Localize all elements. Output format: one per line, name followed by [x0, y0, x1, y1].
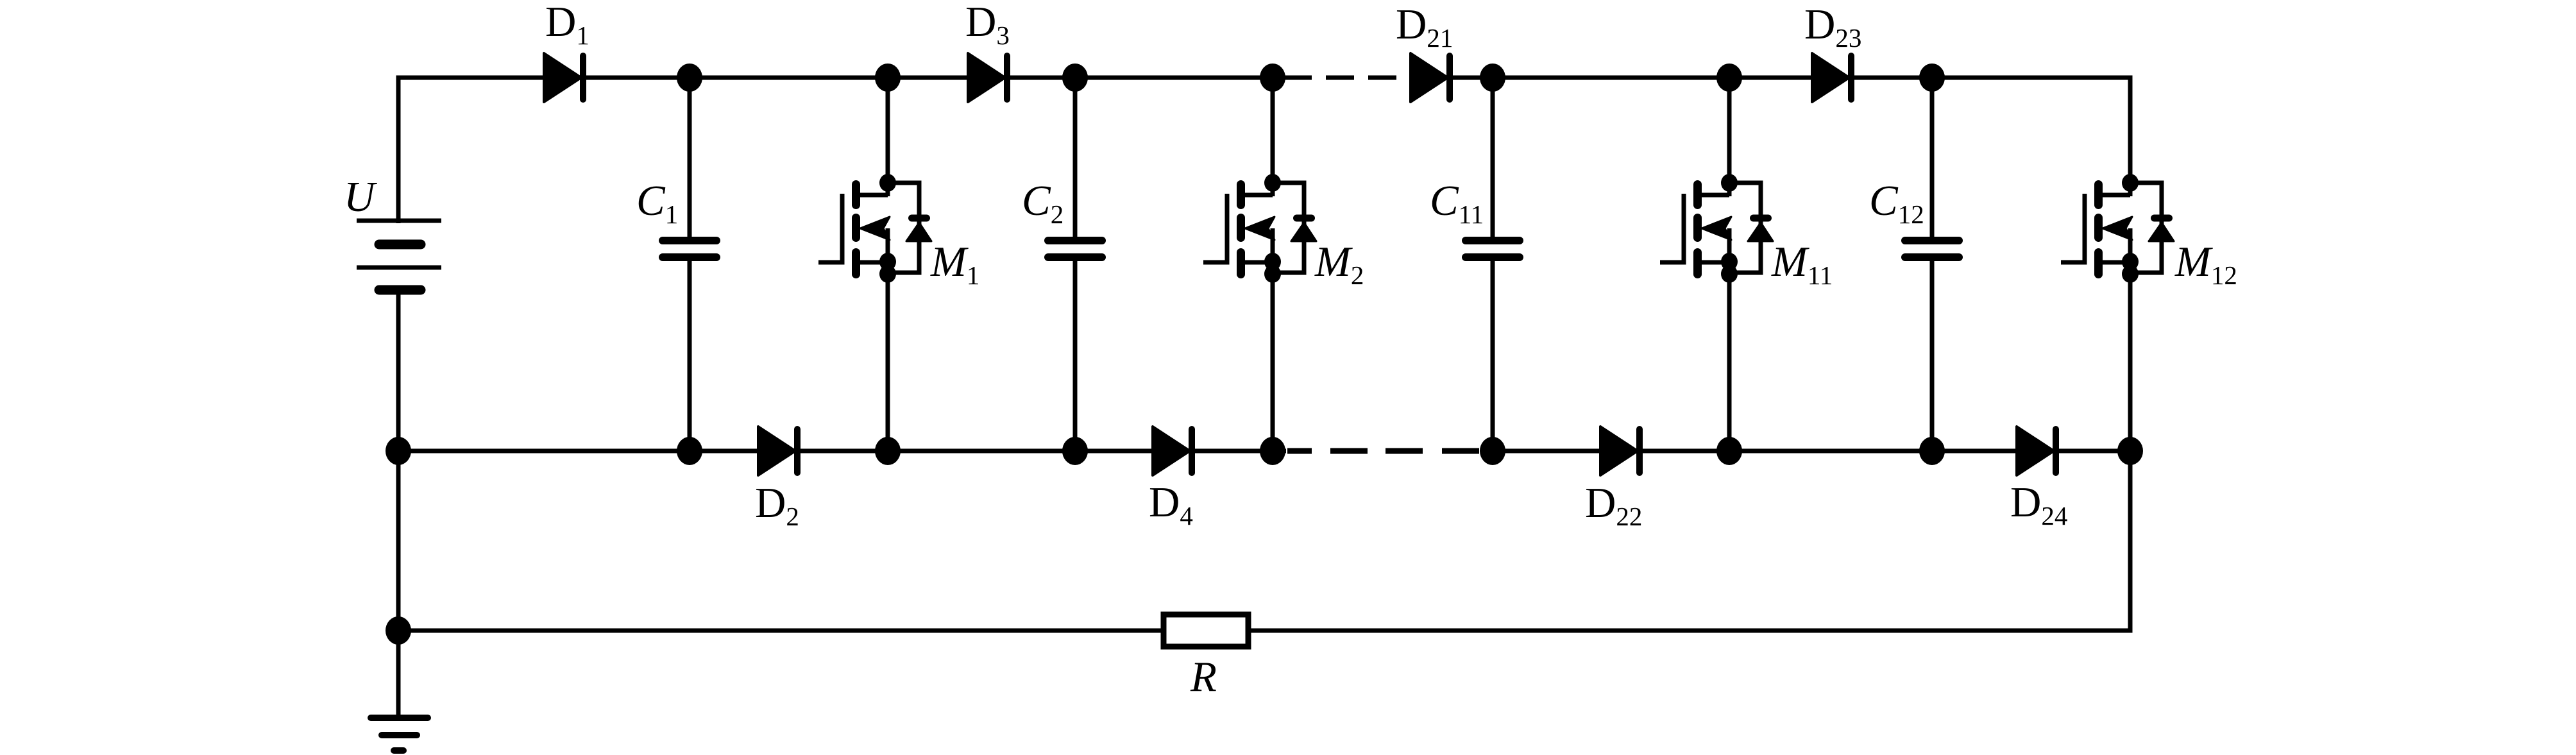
svg-text:R: R [1190, 653, 1217, 700]
svg-text:U: U [344, 173, 378, 221]
